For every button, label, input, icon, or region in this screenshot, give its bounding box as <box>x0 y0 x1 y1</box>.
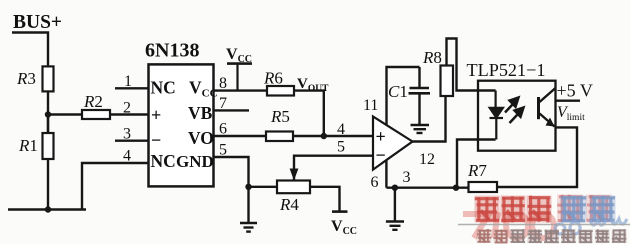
wire junction to R1 <box>47 115 49 134</box>
svg-text:C1: C1 <box>388 82 408 101</box>
resistor R7 <box>469 182 498 192</box>
ground under C1 <box>411 125 430 133</box>
junction dot rail <box>45 206 51 212</box>
svg-text:4: 4 <box>337 121 345 138</box>
svg-text:R8: R8 <box>422 48 442 67</box>
node BUS+ lead wire <box>12 33 48 67</box>
wire pin1 stub <box>115 87 149 89</box>
wire +5V supply line <box>556 99 581 101</box>
wire R1 bottom to rail <box>47 159 49 210</box>
wire op-amp output to R8 bottom <box>413 96 446 142</box>
svg-text:VOUT: VOUT <box>297 76 329 94</box>
junction dot R7 node <box>453 185 459 191</box>
watermark pink ghost glyphs <box>463 212 554 238</box>
svg-text:VCC: VCC <box>226 46 252 65</box>
wire op-amp supply to rail <box>387 67 420 125</box>
wire bottom rail <box>8 208 86 210</box>
svg-text:R6: R6 <box>263 69 283 88</box>
svg-text:1: 1 <box>124 73 132 90</box>
LED inside TLP521-1 <box>490 91 504 140</box>
svg-text:GND: GND <box>176 152 214 171</box>
svg-text:R2: R2 <box>83 92 103 111</box>
svg-text:+: + <box>376 127 386 147</box>
svg-text:R3: R3 <box>16 69 36 88</box>
wire R4 wiper to op-amp minus input <box>294 156 373 181</box>
svg-text:VCC: VCC <box>331 218 357 237</box>
optocoupler TLP521-1 box <box>478 81 556 151</box>
wire op-amp bottom pin to node <box>385 160 387 188</box>
wire pin3 stub <box>115 139 149 141</box>
svg-text:+: + <box>151 105 161 125</box>
svg-text:8: 8 <box>219 75 227 92</box>
resistor R8 <box>441 66 454 97</box>
svg-text:5: 5 <box>337 139 345 156</box>
svg-text:6: 6 <box>219 121 227 138</box>
ground under op-amp <box>386 222 404 230</box>
watermark blue script ghost <box>555 219 627 234</box>
wire R3 to junction <box>47 91 49 133</box>
svg-text:VO: VO <box>188 128 214 148</box>
svg-text:VB: VB <box>188 103 213 123</box>
LED light arrows <box>505 98 524 124</box>
junction dot pin5 node <box>245 184 251 190</box>
svg-text:−: − <box>376 145 386 165</box>
svg-text:+5 V: +5 V <box>557 81 593 101</box>
svg-text:−: − <box>151 130 161 150</box>
potentiometer R4 <box>277 181 310 194</box>
wire LED cathode left and down to node <box>457 140 496 188</box>
svg-text:2: 2 <box>123 100 131 117</box>
svg-text:5: 5 <box>219 142 227 159</box>
svg-text:3: 3 <box>123 126 131 143</box>
power Vcc tap above pin8 <box>227 64 252 91</box>
IC 6N138 box <box>149 64 214 186</box>
resistor R5 <box>266 132 293 142</box>
svg-text:NC: NC <box>151 78 176 98</box>
wire junction to R2 <box>48 113 82 115</box>
wire R6 to VOUT corner down to node <box>294 91 324 136</box>
svg-text:3: 3 <box>403 169 411 186</box>
wire node line to R7 <box>386 186 468 188</box>
capacitor C1 plates <box>409 88 431 93</box>
svg-text:Vlimit: Vlimit <box>557 104 585 123</box>
wire node down to ground <box>247 187 249 223</box>
svg-text:6N138: 6N138 <box>145 40 199 62</box>
svg-text:4: 4 <box>123 148 131 165</box>
resistor R6 <box>267 86 294 96</box>
watermark big blue text 培训 <box>557 195 583 223</box>
resistor R3 <box>43 66 54 91</box>
power Vcc tap below R4 <box>332 210 348 213</box>
phototransistor Q1 <box>539 88 556 127</box>
wire rail riser to pin4 <box>82 163 149 210</box>
svg-text:NC: NC <box>151 151 176 171</box>
resistor R1 <box>43 133 54 159</box>
wire node to R4 left <box>249 186 278 188</box>
wire C1 bottom stem to ground <box>418 93 420 124</box>
wire R8 top loop to LED anode <box>447 39 496 91</box>
wire C1 top stem <box>418 67 420 88</box>
svg-text:BUS+: BUS+ <box>13 12 62 33</box>
svg-text:R7: R7 <box>467 161 487 180</box>
wire R2 to pin2 <box>110 113 149 115</box>
svg-text:11: 11 <box>363 97 378 114</box>
wire pin8 to R6 <box>214 89 268 91</box>
svg-text:R5: R5 <box>270 107 290 126</box>
wire pin7 stub <box>214 109 250 111</box>
wire pin5 right and down <box>214 157 249 187</box>
svg-text:TLP521−1: TLP521−1 <box>467 60 546 80</box>
wire ground drop under op-amp <box>394 188 396 221</box>
svg-text:R4: R4 <box>279 195 299 214</box>
svg-text:6: 6 <box>371 174 379 191</box>
watermark bottom row 射频和天线设计专家 <box>477 229 492 243</box>
watermark big red text 易迪拓 <box>475 196 500 223</box>
op-amp U1 triangle <box>373 117 413 170</box>
svg-text:7: 7 <box>219 95 227 112</box>
junction dot VOUT drop on pin6 line <box>321 133 327 139</box>
wire pin6 to R5 <box>214 135 267 137</box>
resistor R2 <box>82 110 110 119</box>
watermark gray rule <box>458 224 630 226</box>
wire R4 right to Vcc tap <box>310 187 340 212</box>
junction dot op-amp ground node <box>392 185 398 191</box>
wire R5 to op-amp plus input <box>293 135 373 137</box>
svg-text:R1: R1 <box>18 136 38 155</box>
potentiometer R4 wiper arrowhead <box>290 169 299 181</box>
svg-text:12: 12 <box>419 151 435 168</box>
junction dot R3/R1/R2 <box>45 111 51 117</box>
wire R7 right to transistor emitter <box>497 127 577 187</box>
ground under pin5 node <box>240 223 257 232</box>
